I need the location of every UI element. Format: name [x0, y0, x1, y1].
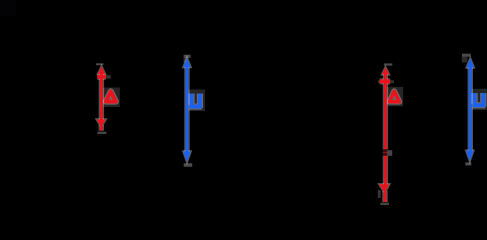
halo dash right of i1 crossbar [106, 75, 111, 78]
halo patch left of right current arrowhead [378, 190, 381, 198]
halo dashes beside i2 crossbar [390, 80, 394, 83]
wire right vertical left loop [159, 58, 161, 166]
node tick above right current arrow [384, 63, 392, 65]
wire top left loop [40, 57, 160, 59]
label u1 (blue) white casing [190, 94, 202, 109]
wire left vertical left loop [39, 58, 41, 166]
wire bottom right loop [323, 165, 443, 167]
node tick below right current arrow [380, 203, 389, 205]
label delta (right, red) white casing [390, 91, 400, 102]
current arrow i1 (red) [97, 66, 106, 130]
current arrow i2 white casing [379, 67, 390, 202]
wire top right loop [323, 57, 443, 59]
label delta (right, red) [390, 91, 400, 102]
node tick above left voltage arrow [184, 55, 191, 58]
halo box of left delta label [103, 88, 120, 108]
halo box of right delta label [387, 87, 404, 107]
voltage arrow u1 white casing [183, 58, 190, 162]
voltage source Uq1 [22, 92, 58, 128]
label delta (left, red) [106, 91, 116, 101]
halo box of label u1 [189, 90, 206, 112]
wire left vertical right loop [322, 58, 324, 166]
node tick above left current arrow [96, 63, 103, 65]
current arrow i2 (red) [379, 67, 390, 202]
wire crossing over current arrow i2 [379, 149, 392, 151]
halo box of label u2 [472, 89, 487, 110]
wire bottom left loop [40, 165, 160, 167]
node tick below left current arrow [97, 132, 106, 134]
label u2 (blue) white casing [473, 93, 486, 107]
label u1 (blue) [190, 94, 202, 109]
voltage arrow u1 (blue) [183, 58, 190, 162]
resistor R1 [152, 85, 168, 135]
label u2 (blue) [473, 93, 486, 107]
wire middle branch right loop [370, 152, 400, 154]
voltage arrow u2 white casing [466, 58, 474, 161]
voltage arrow u2 (blue) [466, 58, 474, 161]
halo of wire crossing right of arrow i2 [387, 150, 392, 156]
resistor R2 [435, 85, 451, 135]
node tick below right voltage arrow [465, 162, 471, 165]
wire right vertical right loop [442, 58, 444, 166]
voltage source Uq2 [305, 92, 341, 128]
label delta (left, red) white casing [106, 91, 116, 101]
node tick below left voltage arrow [184, 163, 193, 166]
faint corner watermark block [0, 0, 16, 16]
current arrow i1 white casing [97, 66, 106, 130]
node tick above right voltage arrow [462, 54, 471, 57]
